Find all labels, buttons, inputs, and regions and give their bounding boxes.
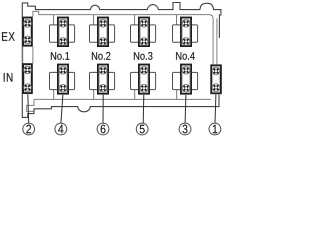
label 2: [26, 125, 31, 134]
label IN: [4, 73, 13, 82]
No.2 EX cap lower bolt: [99, 38, 107, 46]
label No.4: [176, 52, 195, 60]
No.3 EX cap lower bolt: [140, 38, 148, 46]
No.4 EX cap: [181, 18, 191, 47]
No.1 IN cap: [58, 65, 68, 94]
No.3 EX cap: [139, 18, 149, 47]
leader line to circled 1: [214, 94, 217, 123]
leader line to circled 6: [102, 95, 104, 123]
inner casting line bottom: [27, 99, 211, 111]
No.1 IN cap lower bolt: [59, 84, 67, 92]
No.3 IN cap: [139, 65, 149, 94]
No.2 EX cap upper bolt: [99, 20, 107, 28]
No.3 IN cap lower bolt: [140, 84, 148, 92]
leader line to circled 2: [27, 94, 30, 123]
No.2 IN cap upper bolt: [99, 67, 107, 75]
label 1: [213, 125, 217, 133]
bolts: [24, 20, 220, 92]
left IN cap upper bolt: [24, 66, 32, 74]
right IN cap lower bolt: [212, 84, 220, 92]
inner casting line top: [33, 11, 213, 64]
right IN cap: [211, 65, 221, 93]
No.4 EX cap upper bolt: [182, 20, 190, 28]
No.4 IN cap lower bolt: [182, 84, 190, 92]
No.4 EX cap lower bolt: [182, 38, 190, 46]
leader line to circled 3: [184, 95, 187, 123]
label 6: [101, 125, 106, 134]
left IN cap: [23, 64, 32, 93]
bearing caps: [23, 18, 221, 94]
sequence circle 1: [209, 123, 221, 135]
cylinder head outer outline: [22, 3, 221, 118]
label No.1: [51, 52, 70, 60]
label No.2: [92, 52, 111, 60]
No.1 EX cap: [58, 18, 68, 47]
leader line to circled 4: [61, 95, 63, 123]
leader line to circled 5: [142, 95, 145, 124]
label 5: [140, 125, 145, 134]
left IN cap lower bolt: [24, 84, 32, 92]
casting ticks EX row: [54, 15, 177, 25]
ears No.3 EX: [131, 25, 140, 42]
inner casting line right: [216, 19, 218, 65]
sequence circle 4: [55, 123, 67, 135]
sequence circle 5: [136, 123, 148, 135]
ears No.4 EX: [173, 25, 182, 42]
No.4 IN cap upper bolt: [182, 67, 190, 75]
ears No.3 IN: [131, 72, 140, 89]
No.2 IN cap lower bolt: [99, 84, 107, 92]
No.2 IN cap: [98, 65, 108, 94]
sequence circle 6: [97, 123, 109, 135]
left EX cap upper bolt (template): [24, 20, 32, 28]
label EX: [2, 32, 15, 41]
left EX cap: [23, 18, 32, 46]
No.1 EX cap lower bolt: [59, 38, 67, 46]
No.3 EX cap upper bolt: [140, 20, 148, 28]
No.2 EX cap: [98, 18, 108, 47]
ears No.2 IN: [90, 72, 99, 89]
No.3 IN cap upper bolt: [140, 67, 148, 75]
left pedestal connector lines: [23, 47, 33, 64]
ears No.1 IN: [50, 72, 59, 89]
No.1 EX cap upper bolt: [59, 20, 67, 28]
casting ticks IN row: [54, 90, 177, 100]
ears No.1 EX: [50, 25, 59, 42]
left EX cap lower bolt: [24, 36, 32, 44]
No.1 IN cap upper bolt: [59, 67, 67, 75]
sequence circles: [23, 123, 221, 135]
ears No.2 EX: [90, 25, 99, 42]
No.4 IN cap: [181, 65, 191, 94]
label 4: [58, 125, 63, 133]
label No.3: [134, 52, 153, 60]
ears No.4 IN: [173, 72, 182, 89]
sequence circle 2: [23, 123, 35, 135]
label 3: [183, 125, 188, 134]
sequence circle 3: [179, 123, 191, 135]
right IN cap upper bolt: [212, 67, 220, 75]
